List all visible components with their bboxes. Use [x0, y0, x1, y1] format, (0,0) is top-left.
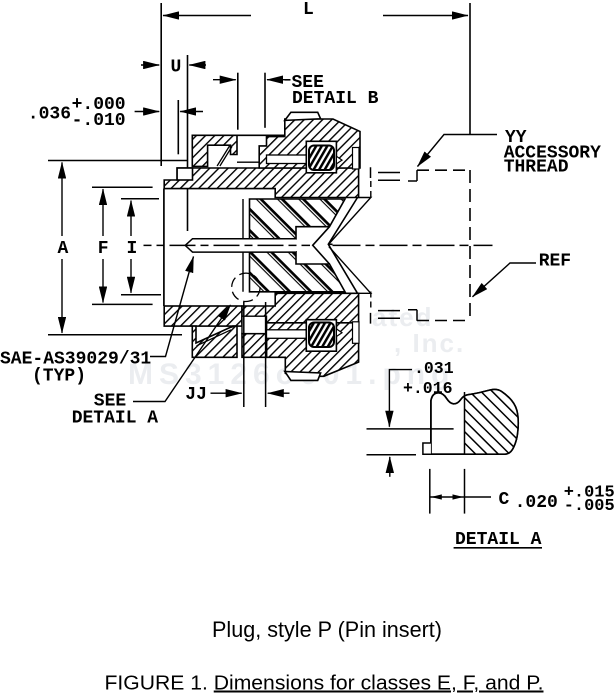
- nut relief slot top: [353, 148, 360, 170]
- svg-text:.020: .020: [515, 493, 558, 513]
- svg-text:+.016: +.016: [403, 379, 453, 398]
- bayonet pin top: [309, 146, 334, 171]
- dashed vertical far right: [469, 170, 471, 321]
- svg-text:JJ: JJ: [185, 385, 207, 405]
- svg-text:U: U: [171, 58, 182, 78]
- svg-text:REF: REF: [539, 252, 571, 272]
- bayonet ramp tab top (unsectioned): [285, 112, 321, 120]
- watermark: [128, 302, 465, 391]
- svg-text:A: A: [58, 239, 69, 259]
- node YY ACCESSORY THREAD label: [504, 128, 601, 178]
- insert top (pin insert upper section): [250, 199, 346, 239]
- detail A callout circle: [232, 273, 260, 301]
- thread cone ghost top: [329, 198, 371, 244]
- wire: JJ left extension line: [243, 302, 245, 407]
- svg-text:(TYP): (TYP): [32, 367, 86, 387]
- wire: U right extension line: [187, 55, 189, 231]
- dimension .036: [135, 111, 203, 113]
- svg-text:C: C: [499, 490, 510, 510]
- leader YY accessory thread: [418, 135, 498, 167]
- insert bottom (pin insert lower section): [250, 252, 346, 292]
- dimension U: [141, 64, 206, 66]
- dashed top horizontal: [417, 169, 470, 171]
- pocket bottom edge line: [237, 161, 259, 163]
- svg-text:FIGURE 1. Dimensions for clas: FIGURE 1. Dimensions for classes E, F, a…: [105, 673, 544, 694]
- node SEE DETAIL B label: [285, 73, 379, 109]
- bayonet pin housing top (white): [306, 141, 336, 173]
- rear grommet nut bottom: [192, 326, 237, 357]
- dimension slot (see detail B callout): [213, 79, 288, 81]
- leader SAE-AS39029/31 to contact pin: [150, 257, 194, 357]
- shell front bottom band: [242, 293, 359, 323]
- shell bottom band (plug shell lower wall): [164, 306, 242, 326]
- accessory band bottom (closed channel): [242, 334, 267, 358]
- thread mark bottom: [371, 310, 418, 324]
- washer (unsectioned) top: [177, 168, 192, 180]
- flange left face line: [163, 189, 165, 306]
- svg-text:I: I: [127, 239, 138, 259]
- node SAE-AS39029/31 (TYP) label: [0, 350, 151, 387]
- bayonet groove slot bottom: [267, 330, 308, 339]
- svg-text:DETAIL A: DETAIL A: [455, 530, 542, 550]
- detail A grommet lip outline: [431, 389, 518, 454]
- thread cone ghost bottom: [329, 247, 371, 294]
- rear grommet nut top: [192, 135, 237, 166]
- leader SEE DETAIL A to callout circle: [133, 305, 231, 402]
- dimension A: [48, 161, 188, 335]
- wire: L dim left extension line: [160, 3, 162, 166]
- dimension JJ: [211, 392, 290, 394]
- svg-text:L: L: [303, 0, 314, 20]
- svg-text:THREAD: THREAD: [504, 157, 569, 177]
- wire: slot dim right extension line: [264, 73, 266, 128]
- detail A insert face line: [464, 392, 466, 454]
- leader REF: [473, 263, 537, 297]
- coupling nut top: [259, 119, 360, 168]
- bayonet groove slot top: [267, 155, 308, 164]
- shell top band (plug shell upper wall): [164, 168, 358, 198]
- svg-text:F: F: [98, 239, 109, 259]
- svg-text:DETAIL B: DETAIL B: [292, 89, 379, 109]
- coupling nut bottom: [267, 323, 359, 377]
- groove slash in rear nut bottom: [197, 330, 232, 346]
- thread mark F top: [371, 167, 418, 181]
- dimension .031 +.016: [367, 370, 454, 477]
- bayonet pin bottom: [309, 323, 334, 348]
- svg-text:, Inc.: , Inc.: [394, 328, 465, 358]
- nut relief slot bottom: [353, 322, 360, 344]
- svg-text:.031: .031: [414, 359, 454, 378]
- dashed bottom horizontal: [417, 320, 470, 322]
- bayonet pin nose bottom: [336, 329, 342, 337]
- wire: slot dim left extension line: [237, 73, 239, 130]
- insert retention gap lines: [242, 199, 244, 292]
- wire: .036 right extension line: [177, 100, 179, 154]
- svg-text:Plug, style P (Pin insert): Plug, style P (Pin insert): [212, 617, 442, 642]
- accessory thread dashed outline: [371, 167, 471, 323]
- detail A bottom-left step: [423, 443, 431, 454]
- wire: JJ right extension line: [265, 302, 267, 407]
- centerline: [144, 244, 493, 246]
- bayonet ramp tab bottom (unsectioned): [285, 372, 321, 381]
- pocket top edge line: [237, 134, 285, 136]
- dimension F: [92, 187, 153, 304]
- svg-text:.036: .036: [28, 105, 71, 125]
- dimension L: [163, 15, 468, 17]
- node SEE DETAIL A label: [72, 392, 159, 429]
- dimension I: [121, 199, 161, 295]
- detail A hatched body: [465, 385, 530, 460]
- insert face inner chevron: [313, 227, 330, 264]
- svg-text:-.005: -.005: [564, 497, 615, 516]
- contact pin: [185, 239, 296, 252]
- shell face outer chevron: [328, 198, 357, 294]
- value label .036 +.000 -.010: [28, 95, 126, 131]
- pocket bottom (white): [242, 316, 267, 333]
- bayonet pin nose top: [336, 156, 342, 164]
- bayonet pin housing bottom (white): [306, 320, 336, 352]
- svg-text:DETAIL A: DETAIL A: [72, 409, 159, 429]
- svg-text:-.010: -.010: [72, 111, 126, 131]
- wire: L dim right extension line: [469, 3, 471, 135]
- dimension C .020: [430, 469, 491, 514]
- groove slash in rear nut top: [217, 146, 232, 167]
